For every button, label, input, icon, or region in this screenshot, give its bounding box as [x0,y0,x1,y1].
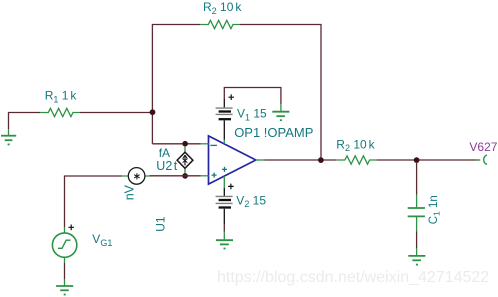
ground (VG1) [56,279,73,295]
output terminal V627 arc [477,155,488,164]
svg-text:R2 10k: R2 10k [336,137,375,153]
junction node at R1 / feedback [150,109,156,115]
ammeter U2 (diamond with arrow) [177,152,193,168]
svg-text:V1 15: V1 15 [237,107,267,123]
ground (V2) [216,232,233,249]
svg-text:V2 15: V2 15 [236,193,266,209]
svg-text:U2t: U2t [156,159,177,173]
wire R1 to inverting node [80,112,152,114]
wire output row to R2 [265,159,337,161]
wire from V2 down to ground [223,209,225,232]
generator VG1 plus sign [68,225,74,231]
svg-text:VG1: VG1 [92,232,112,248]
battery V1 [216,99,233,119]
wire minus row (maroon) [152,143,200,145]
svg-text:V627: V627 [469,140,497,154]
svg-text:C1 1n: C1 1n [428,195,442,224]
svg-text:R2 10k: R2 10k [203,0,242,16]
op-amp bottom power pin [223,176,225,196]
junction node at C1 tap [414,157,420,163]
wire R2 output to terminal [377,159,477,161]
battery V2 plus sign [228,184,234,190]
op-amp plus mark at input [212,173,217,178]
op-amp inner plus mark [222,167,227,172]
junction node output/feedback [318,157,324,163]
ground (C1) [408,248,425,265]
svg-text:OP1 !OPAMP: OP1 !OPAMP [234,125,313,140]
generator VG1 green stub top [64,227,66,233]
svg-text:nV: nV [122,184,136,200]
ground (V1, top right) [272,104,289,120]
junction node at ammeter bottom / plus input [182,173,188,179]
wire feedback: top right run and right vertical down to output node [240,25,321,161]
resistor R1 1k [40,108,80,116]
wire C1 branch down from junction [416,162,418,195]
voltmeter U1 (circle with asterisk) [128,168,145,185]
battery V1 plus sign [228,94,234,100]
svg-text:R1 1k: R1 1k [45,89,78,105]
wire C1 to ground [416,232,418,249]
wire from left ground up to R1 [9,113,41,130]
op-amp minus input pin stub [201,143,209,145]
voltmeter U1 green stubs [122,175,149,177]
wire from V1 up and right to ground [224,88,281,105]
op-amp plus input pin stub [201,175,209,177]
wire op-amp output green stub [256,159,265,161]
svg-text:https://blog.csdn.net/weixin_4: https://blog.csdn.net/weixin_42714522 [217,269,489,286]
capacitor C1 1n [408,195,425,232]
ammeter U2 green stubs [184,146,186,173]
wire VG1 down to ground [64,257,66,279]
wire plus row from meter to op-amp (maroon) [150,175,201,177]
resistor R2 (feedback 10k) [200,20,240,28]
wire VG1 top corner to voltmeter [65,176,123,227]
ground (left, at R1 input) [1,129,16,144]
resistor R2 (output 10k) [337,156,377,164]
junction node at ammeter top [182,141,188,147]
battery V2 [216,196,233,207]
generator VG1 (circle with step wave) [52,233,76,257]
op-amp minus mark [210,144,217,146]
wire feedback: left vertical and top run to R2 [152,25,200,144]
svg-text:U1: U1 [154,216,168,232]
svg-text:fA: fA [159,146,170,160]
op-amp OP1 triangle [209,136,256,184]
op-amp top power pin [223,121,225,144]
